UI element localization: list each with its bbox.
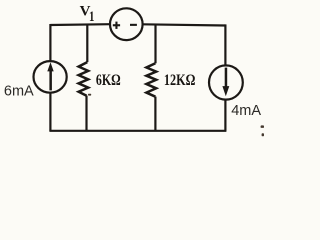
svg-text:1: 1 bbox=[89, 9, 94, 25]
svg-text:6KΩ: 6KΩ bbox=[96, 72, 121, 89]
svg-text:12KΩ: 12KΩ bbox=[164, 72, 196, 89]
svg-text:4mA: 4mA bbox=[231, 103, 261, 119]
svg-text:6mA: 6mA bbox=[4, 83, 34, 99]
